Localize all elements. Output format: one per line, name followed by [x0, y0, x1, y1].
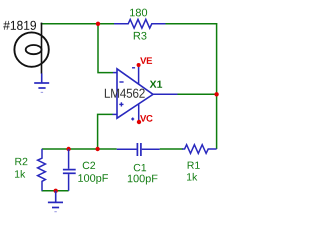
op-amp bottom power plus mark: [131, 118, 134, 121]
node junction top (lamp/R3/inverting): [96, 22, 100, 26]
op-amp bottom power pin stub: [138, 104, 140, 122]
node junction noninverting: [95, 147, 99, 151]
net flag VE label: [140, 57, 152, 64]
op-amp noninverting pin stub: [113, 113, 118, 115]
label R3: [134, 32, 147, 40]
label 1k (R2 value): [15, 170, 25, 178]
op-amp ref label X1: [150, 81, 162, 88]
lamp V1 filament loop: [26, 45, 42, 54]
wire output (green part to right rail): [177, 93, 217, 95]
capacitor C1: [117, 143, 160, 156]
op-amp inverting pin stub: [113, 72, 117, 74]
op-amp top power minus mark: [132, 67, 135, 69]
wire bottom horizontal (R2 top to C1): [42, 148, 117, 150]
node junction ground bar: [54, 189, 58, 193]
ground under lamp: [34, 73, 49, 92]
node junction C2 top: [66, 147, 70, 151]
ground under R2/C2 bar: [48, 191, 63, 212]
wire bottom bar (R2 bottom to C2 bottom): [42, 190, 69, 192]
wire top horizontal left (lamp to R3): [41, 23, 114, 25]
label 180 (R3 value): [130, 9, 147, 17]
op-amp output lead: [153, 93, 178, 95]
wire bottom horizontal (C1 to R1): [160, 148, 183, 150]
net flag VC label: [140, 115, 153, 122]
wire right rail vertical: [216, 23, 218, 149]
label 1k (R1 value): [187, 173, 197, 181]
label R2: [15, 158, 27, 165]
node junction right rail / output: [214, 92, 218, 96]
label 100pF (C1 value): [128, 175, 158, 185]
lamp V1 bulb circle: [14, 32, 48, 66]
capacitor C2: [63, 149, 76, 191]
wire noninverting input (from bottom junction up to op-amp plus): [98, 114, 113, 149]
net flag VE dot: [137, 63, 141, 67]
op-amp X1 triangle: [117, 69, 153, 118]
wire inverting input (from top junction down to op-amp minus): [98, 24, 113, 73]
resistor R2: [38, 149, 46, 191]
label R1: [188, 162, 200, 169]
net flag VC dot: [137, 120, 141, 124]
lamp V1 lead (black vertical): [41, 23, 43, 74]
op-amp minus input mark: [119, 81, 123, 83]
resistor R1: [182, 145, 216, 154]
resistor R3: [114, 19, 166, 28]
label 100pF (C2 value): [78, 174, 108, 184]
label C2: [83, 162, 95, 169]
label C1: [134, 164, 146, 171]
wire top horizontal right (R3 to right rail): [166, 23, 218, 25]
op-amp top power pin stub: [138, 65, 140, 85]
op-amp plus input mark: [119, 102, 123, 106]
lamp label #1819: [3, 21, 36, 30]
op-amp device label LM4562: [105, 89, 145, 98]
